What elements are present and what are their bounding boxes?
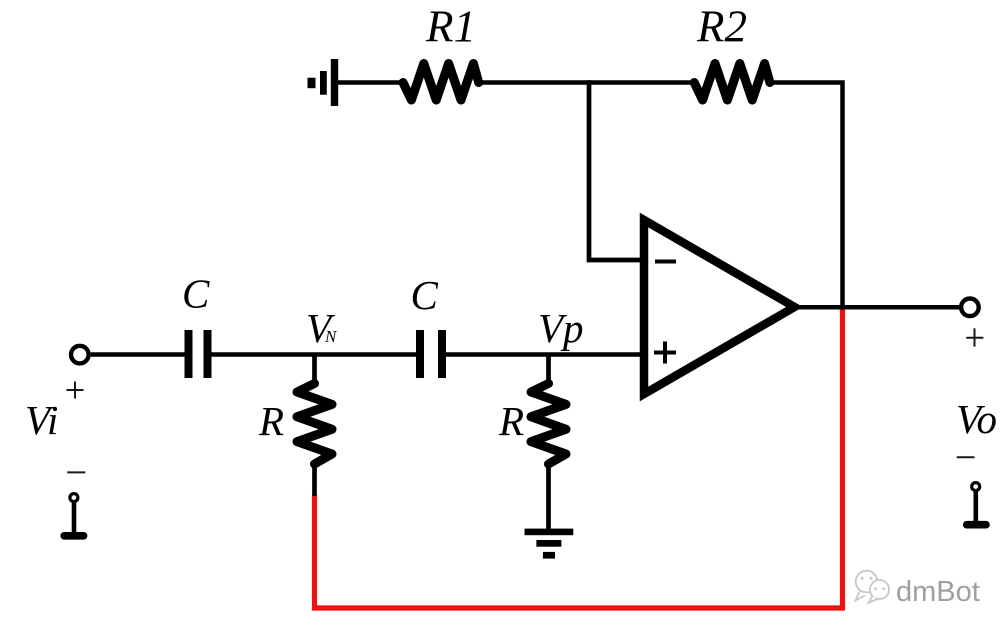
op-amp U1 xyxy=(644,220,795,394)
red feedback wire xyxy=(315,307,843,608)
wire VN node down to R xyxy=(312,355,317,385)
resistor R (left, vertical) xyxy=(297,384,332,465)
capacitor C1 xyxy=(189,330,208,378)
minus mark (input side) xyxy=(67,471,85,473)
wire junction to inverting input xyxy=(589,80,644,260)
source terminal (output side) xyxy=(967,483,986,525)
resistor R1 xyxy=(403,64,479,101)
wire C1 to C2 through node VN xyxy=(212,352,417,357)
svg-text:Vo: Vo xyxy=(956,396,997,442)
plus mark (input side) xyxy=(67,382,84,399)
svg-text:N: N xyxy=(324,327,338,346)
output terminal circle Vo+ xyxy=(961,299,979,317)
svg-text:R: R xyxy=(498,398,524,444)
ground (bottom, under right R) xyxy=(525,529,574,559)
svg-text:Vp: Vp xyxy=(538,305,584,351)
svg-text:C: C xyxy=(182,271,210,317)
svg-text:R2: R2 xyxy=(696,2,747,52)
svg-text:dmBot: dmBot xyxy=(896,576,980,608)
wire R left bottom (black part before red) xyxy=(312,463,317,496)
wire ground to R1 xyxy=(338,80,404,85)
wire terminal to C1 xyxy=(91,352,185,357)
wire C2 to op-amp + input through node Vp xyxy=(446,352,645,357)
watermark icon xyxy=(856,571,890,603)
ground (top-left, sideways) xyxy=(308,59,339,106)
op-amp plus sign xyxy=(654,351,676,355)
wire Vp node down to R xyxy=(546,355,551,385)
wire R right to ground xyxy=(546,463,551,531)
source terminal (input side) xyxy=(64,494,83,536)
wire R2 to output node (top-right corner, down to output) xyxy=(770,83,843,308)
svg-text:R: R xyxy=(258,398,284,444)
svg-text:Vi: Vi xyxy=(25,397,58,443)
plus mark (output side) xyxy=(966,328,983,346)
input terminal circle Vi+ xyxy=(71,346,89,364)
op-amp minus sign xyxy=(655,260,676,264)
minus mark (output side) xyxy=(957,456,975,458)
svg-text:C: C xyxy=(411,272,439,318)
resistor R (right, vertical) xyxy=(531,384,566,465)
svg-text:R1: R1 xyxy=(425,2,476,52)
wire op-amp output xyxy=(799,305,959,310)
resistor R2 xyxy=(694,64,770,101)
wire R1 to R2 xyxy=(479,80,695,85)
capacitor C2 xyxy=(420,330,442,378)
